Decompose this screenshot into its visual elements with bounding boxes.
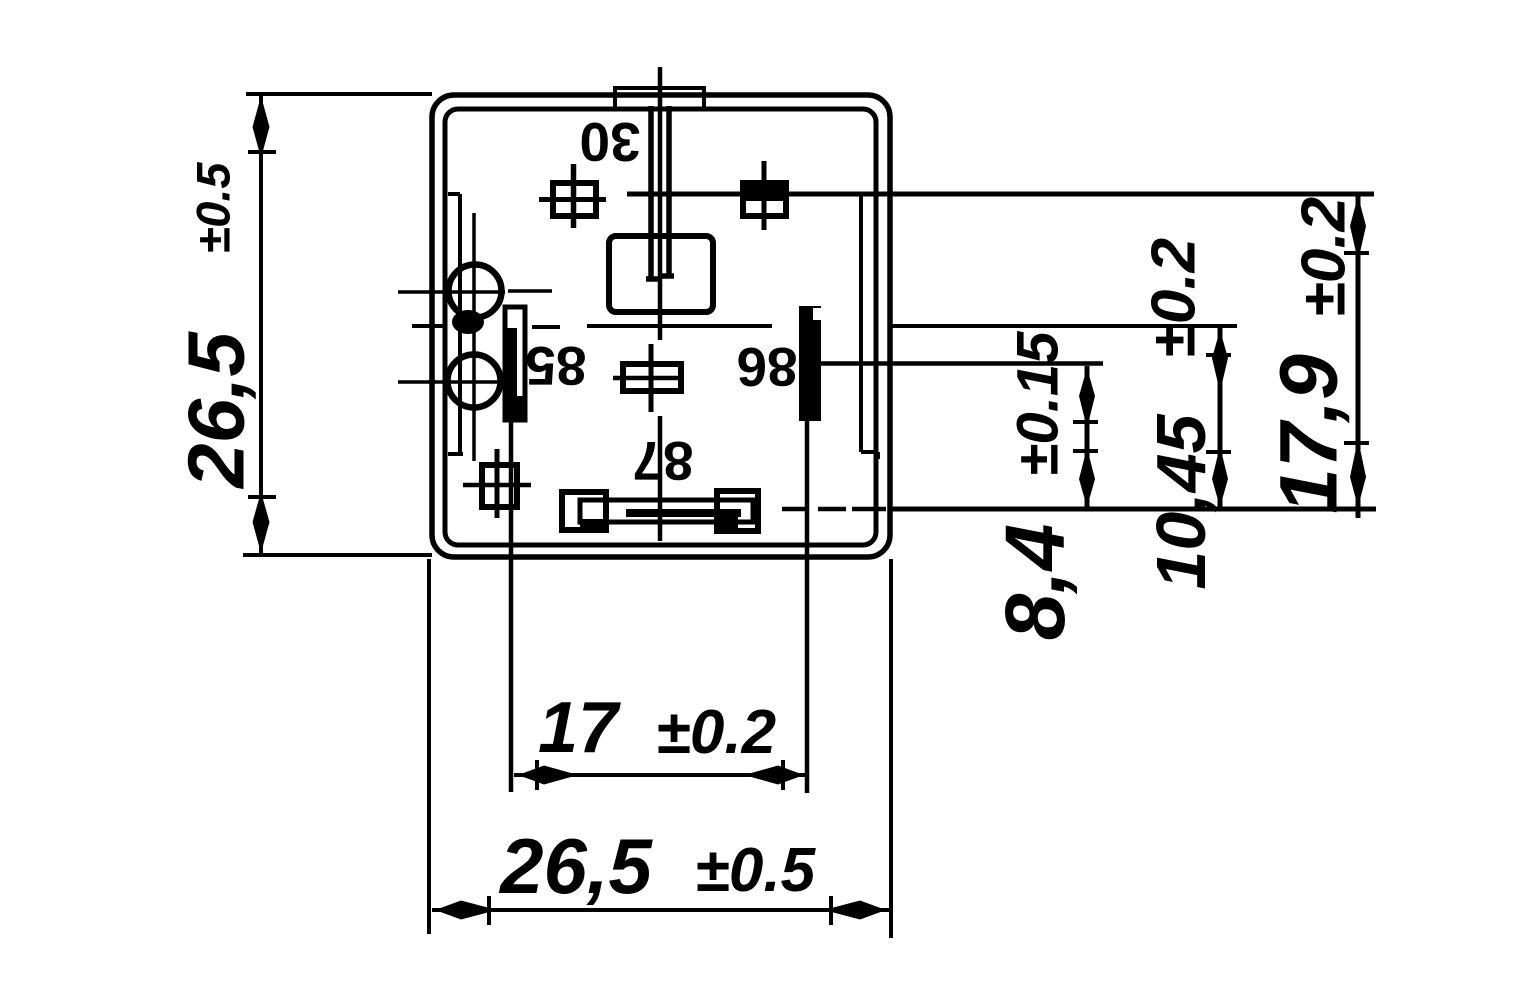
dim 10,45 dimension line bbox=[1218, 328, 1223, 509]
dim 8,4 bottom arrow tick bbox=[1073, 449, 1098, 453]
svg-text:85: 85 bbox=[525, 335, 586, 397]
dim 17 left arrow tick bbox=[535, 760, 539, 790]
dim 26,5 left top extension line bbox=[246, 92, 432, 96]
mounting circle 2 bbox=[448, 355, 501, 408]
key cutout bbox=[609, 236, 713, 312]
relay body inner outline bbox=[445, 109, 876, 545]
svg-text:±0.2: ±0.2 bbox=[656, 698, 776, 767]
pin hole top-left vertical crosshair bbox=[571, 164, 577, 228]
dim 17 right arrow tick bbox=[781, 760, 785, 790]
dim 17,9 top arrowhead bbox=[1350, 196, 1366, 261]
mounting circle 1 bbox=[449, 265, 502, 318]
dim 26,5 bottom right arrowhead bbox=[824, 901, 886, 920]
dim 8,4 bottom arrowhead bbox=[1079, 448, 1095, 507]
pin 30 slot bbox=[646, 106, 674, 279]
tangent blob between circles bbox=[452, 310, 484, 334]
pin hole bottom-left square bbox=[482, 465, 517, 507]
extension line pin 86 down bbox=[805, 421, 810, 793]
pin 85 blade fill lower bbox=[504, 396, 525, 420]
right inner step bbox=[861, 196, 878, 459]
horizontal body centerline (chain line) bbox=[412, 326, 1237, 327]
dim 17,9 bottom arrow tick bbox=[1344, 441, 1369, 445]
pin 86 blade bbox=[799, 306, 821, 421]
center pin horizontal crosshair bbox=[613, 376, 684, 381]
dim 26,5 left bottom arrow tick bbox=[248, 495, 276, 499]
8,4 reference line (through pin 86) bbox=[821, 361, 1103, 366]
pin hole bottom-left vertical crosshair bbox=[495, 449, 500, 518]
dim 26,5 left top arrow tick bbox=[248, 150, 276, 154]
pin 87 blade left cap fill bbox=[580, 519, 606, 530]
svg-text:10,45: 10,45 bbox=[1142, 413, 1220, 589]
dim 8,4 top arrowhead bbox=[1079, 368, 1095, 428]
pin 85 blade fill bbox=[505, 328, 517, 420]
svg-text:87: 87 bbox=[632, 430, 693, 492]
svg-text:26,5: 26,5 bbox=[172, 331, 261, 490]
left inner step bbox=[448, 194, 463, 454]
dim 10,45 top arrow tick bbox=[1206, 353, 1231, 357]
dim 26,5 left dimension line bbox=[259, 94, 263, 555]
dim 26,5 bottom right arrow tick bbox=[829, 896, 833, 925]
circles vertical crosshair bbox=[472, 213, 476, 461]
dim 10,45 top arrowhead bbox=[1212, 330, 1228, 392]
dim 17 dimension line bbox=[514, 773, 808, 777]
svg-text:17,9: 17,9 bbox=[1264, 354, 1355, 514]
extension line body right down bbox=[889, 559, 893, 938]
pin hole top-left square bbox=[553, 183, 596, 216]
17,9 upper reference line (through top-right pin) bbox=[627, 192, 1374, 197]
top wall notch around pin 30 slot bbox=[615, 88, 704, 109]
svg-text:26,5: 26,5 bbox=[498, 822, 653, 910]
pin hole top-left horizontal crosshair bbox=[539, 197, 606, 202]
svg-text:±0.5: ±0.5 bbox=[187, 162, 240, 254]
dim 17 right arrowhead bbox=[744, 766, 804, 785]
dim 26,5 bottom left arrow tick bbox=[487, 896, 491, 925]
svg-text:86: 86 bbox=[736, 336, 797, 398]
pin 87 blade bar bbox=[580, 500, 753, 522]
center pin outline bbox=[623, 364, 681, 391]
dim 8,4 dimension line bbox=[1085, 366, 1090, 509]
svg-text:8,4: 8,4 bbox=[988, 524, 1082, 641]
svg-text:30: 30 bbox=[579, 111, 640, 173]
17,9 lower reference chain dashes bbox=[782, 507, 886, 512]
svg-text:17: 17 bbox=[538, 688, 621, 768]
dim 17,9 bottom arrowhead bbox=[1350, 439, 1366, 507]
pin hole top-right filled upper half bbox=[743, 183, 786, 201]
pin 87 blade right cap bbox=[717, 491, 758, 531]
pin 87 blade left cap bbox=[562, 492, 606, 530]
dim 17,9 dimension line bbox=[1356, 194, 1361, 518]
extension line pin 85 down bbox=[509, 420, 514, 792]
pin 87 blade bar stripe bbox=[626, 509, 741, 517]
dim 10,45 bottom arrow tick bbox=[1206, 450, 1231, 454]
dim 10,45 bottom arrowhead bbox=[1212, 446, 1228, 507]
pin 86 blade notch bbox=[813, 308, 821, 320]
dim 17,9 top arrow tick bbox=[1344, 251, 1369, 255]
svg-text:±0.5: ±0.5 bbox=[695, 836, 817, 905]
vertical centerline bbox=[658, 67, 663, 541]
pin hole bottom-left horizontal crosshair bbox=[463, 483, 531, 488]
17,9 lower reference line (through pin 87) bbox=[888, 507, 1376, 512]
relay body outer outline bbox=[432, 95, 890, 557]
extension line body left down bbox=[427, 559, 431, 934]
pin hole top-right square bbox=[743, 183, 786, 216]
dim 17 left arrowhead bbox=[518, 766, 578, 785]
center pin vertical crosshair bbox=[649, 344, 654, 412]
svg-text:±0.2: ±0.2 bbox=[1290, 197, 1359, 317]
circle 2 horizontal crosshair bbox=[398, 380, 504, 384]
dim 26,5 left bottom arrowhead bbox=[253, 492, 270, 553]
circle 1 horizontal crosshair bbox=[398, 291, 552, 292]
dim 26,5 bottom dimension line bbox=[432, 908, 889, 912]
svg-text:±0.2: ±0.2 bbox=[1140, 238, 1209, 358]
dim 26,5 left top arrowhead bbox=[253, 96, 270, 158]
svg-text:±0.15: ±0.15 bbox=[1006, 331, 1071, 476]
dim 8,4 top arrow tick bbox=[1073, 420, 1098, 424]
dim 26,5 left bottom extension line bbox=[243, 553, 432, 557]
pin hole top-right vertical crosshair bbox=[762, 161, 767, 230]
dim 26,5 bottom left arrowhead bbox=[435, 901, 497, 920]
pin 87 blade right cap fill bbox=[718, 514, 738, 530]
pin 85 blade outline bbox=[505, 307, 525, 420]
